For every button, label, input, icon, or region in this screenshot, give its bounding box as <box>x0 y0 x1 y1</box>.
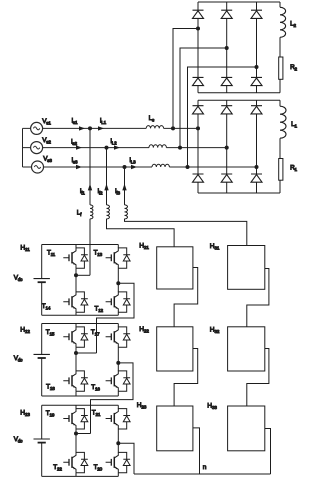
diode T16 <box>123 378 130 384</box>
arrow if3 <box>122 184 126 191</box>
wire H33 to n <box>265 429 271 475</box>
wire H12 left mid <box>76 352 97 354</box>
svg-text:T15: T15 <box>46 329 55 337</box>
node riser3 <box>186 165 190 169</box>
wire H13 left leg bottom <box>76 434 84 477</box>
wire H11 left mid <box>76 274 90 276</box>
diode lower bridge leg3 bottom <box>251 174 262 182</box>
transistor T19 <box>63 408 76 429</box>
diode T21 <box>123 416 130 422</box>
wire H11 bottom rail <box>42 314 119 316</box>
arrow iL3 <box>131 165 137 169</box>
node upper bridge leg3 mid <box>255 65 259 69</box>
svg-text:H32: H32 <box>210 327 220 336</box>
wire lower bridge right side <box>279 100 281 193</box>
wire upper bridge right side <box>279 2 281 93</box>
node H11 left mid <box>74 273 78 277</box>
inductor Ls phase b <box>149 145 166 148</box>
wire source neutral bus <box>23 128 32 167</box>
transistor T18 <box>63 371 76 392</box>
svg-text:H11: H11 <box>20 245 30 254</box>
svg-text:if2: if2 <box>98 188 103 196</box>
arrow is1 <box>79 126 85 130</box>
svg-text:Vdc: Vdc <box>14 436 23 444</box>
svg-text:H31: H31 <box>210 243 220 252</box>
transistor T11 <box>63 247 76 268</box>
source Vs1 <box>31 122 43 134</box>
battery Vdc H11 <box>34 278 50 280</box>
battery Vdc H13 <box>34 438 50 440</box>
wire phase a <box>43 127 198 129</box>
diode upper bridge leg3 bottom <box>251 77 262 85</box>
arrow if1 <box>88 184 92 191</box>
wire upper bridge bottom rail <box>198 92 280 94</box>
arrow iL1 <box>98 126 104 130</box>
node lower bridge leg1 mid <box>196 126 200 130</box>
box H33 <box>228 406 265 451</box>
wire H11 left leg bottom <box>76 275 84 315</box>
svg-text:is2: is2 <box>71 139 77 147</box>
diode T22 <box>81 459 88 465</box>
svg-text:H22: H22 <box>139 326 149 335</box>
wire H11 output to H12 <box>97 283 135 353</box>
wire H22 to H23 <box>174 349 198 407</box>
inductor Lf3 <box>125 205 128 219</box>
svg-text:Ls: Ls <box>149 115 155 123</box>
svg-text:H23: H23 <box>137 402 147 411</box>
wire H32 to H33 <box>247 349 269 407</box>
inductor Ls phase a <box>146 126 163 129</box>
svg-text:T12: T12 <box>94 305 103 313</box>
arrow is3 <box>76 165 82 169</box>
transistor T22 <box>63 452 76 473</box>
wire H13 bottom rail <box>42 475 119 477</box>
svg-text:is1: is1 <box>72 118 78 126</box>
transistor T15 <box>63 327 76 348</box>
svg-text:if1: if1 <box>80 188 85 196</box>
diode T18 <box>81 378 88 384</box>
diode T19 <box>81 416 88 422</box>
box H32 <box>228 327 265 371</box>
svg-text:is3: is3 <box>72 157 78 165</box>
wire H12 left leg bottom <box>76 353 84 396</box>
wire H23 to n <box>193 428 200 474</box>
wire riser phase a to upper bridge <box>173 29 198 129</box>
wire lower bridge bottom rail <box>198 192 280 194</box>
diode lower bridge leg2 bottom <box>221 174 232 182</box>
svg-text:iL1: iL1 <box>100 118 107 126</box>
diode lower bridge leg2 top <box>221 106 232 114</box>
svg-text:Vs2: Vs2 <box>42 137 51 145</box>
node upper bridge leg1 mid <box>196 27 200 31</box>
diode upper bridge leg1 bottom <box>193 77 204 85</box>
node riser1 <box>171 126 175 130</box>
svg-text:R2: R2 <box>290 64 297 72</box>
arrow iL2 <box>114 145 120 149</box>
wire H13 left side <box>41 405 43 476</box>
svg-text:T20: T20 <box>94 464 103 472</box>
transistor T12 <box>106 292 119 313</box>
wire tap3 down and over to H31 <box>125 167 247 246</box>
node H11 right mid <box>116 281 120 285</box>
diode lower bridge leg3 top <box>251 106 262 114</box>
inductor Lf2 <box>107 205 110 219</box>
transistor T17 <box>106 327 119 348</box>
svg-text:T11: T11 <box>47 250 56 258</box>
transistor T13 <box>106 247 119 268</box>
svg-text:L2: L2 <box>290 21 296 29</box>
arrow is2 <box>76 145 82 149</box>
wire H13 right leg bottom <box>118 443 126 476</box>
wire lower bridge leg 2 <box>226 100 228 193</box>
svg-text:H21: H21 <box>139 243 149 252</box>
diode T20 <box>123 459 130 465</box>
wire lower bridge top rail <box>198 99 280 101</box>
wire upper bridge leg 2 <box>226 2 228 93</box>
diode T17 <box>123 334 130 340</box>
svg-text:if3: if3 <box>115 188 120 196</box>
wire H12 right leg bottom <box>118 363 126 396</box>
wire H12 output to H13 <box>91 363 134 434</box>
source Vs3 <box>32 161 44 173</box>
svg-text:T21: T21 <box>92 410 101 418</box>
svg-text:H13: H13 <box>20 410 30 419</box>
svg-text:H33: H33 <box>207 403 217 412</box>
node H13 left mid <box>74 432 78 436</box>
inductor Ls phase c <box>152 164 169 167</box>
wire riser phase b to upper bridge <box>180 48 227 148</box>
diode T15 <box>81 334 88 340</box>
wire H11 right leg top <box>118 245 126 284</box>
wire H11 right leg bottom <box>118 283 126 315</box>
node lower bridge leg3 mid <box>255 165 259 169</box>
svg-text:T13: T13 <box>94 250 103 258</box>
svg-text:T19: T19 <box>46 410 55 418</box>
wire H12 top rail <box>42 323 119 325</box>
transistor T20 <box>106 452 119 473</box>
svg-text:L1: L1 <box>291 121 297 129</box>
node tap2 <box>105 146 109 150</box>
wire neutral bus n <box>134 473 271 475</box>
svg-text:T16: T16 <box>91 384 100 392</box>
svg-text:T17: T17 <box>91 329 100 337</box>
svg-text:T18: T18 <box>46 383 55 391</box>
wire H11 left leg top <box>76 245 84 276</box>
resistor R1 <box>279 159 283 181</box>
diode T14 <box>81 299 88 305</box>
diode upper bridge leg1 top <box>193 10 204 18</box>
wire upper bridge leg 1 <box>197 2 199 93</box>
diode T11 <box>81 255 88 261</box>
battery Vdc H12 <box>34 353 50 355</box>
svg-text:R1: R1 <box>290 165 297 173</box>
inductor L2 <box>280 7 286 37</box>
wire tap2 down and over to H21 <box>107 148 175 247</box>
wire H31 to H32 <box>247 269 269 327</box>
svg-text:Vs1: Vs1 <box>42 118 51 126</box>
wire H12 left leg top <box>76 324 84 354</box>
wire H11 left side <box>41 245 43 316</box>
wire lower bridge leg 1 <box>197 100 199 193</box>
wire H11 top rail <box>42 244 119 246</box>
transistor T14 <box>63 292 76 313</box>
wire upper bridge leg 3 <box>256 2 258 93</box>
wire upper bridge top rail <box>198 1 280 3</box>
node tap3 <box>123 165 127 169</box>
svg-text:Vdc: Vdc <box>14 355 23 363</box>
wire lower bridge leg 3 <box>256 100 258 193</box>
wire H21 to H22 <box>174 268 198 327</box>
inductor Lf1 <box>90 205 93 219</box>
transistor T21 <box>106 408 119 429</box>
diode upper bridge leg2 top <box>221 10 232 18</box>
wire phase b <box>43 147 227 149</box>
node H12 left mid <box>74 351 78 355</box>
node riser2 <box>178 146 182 150</box>
diode T13 <box>123 255 130 261</box>
node H12 right mid <box>116 361 120 365</box>
diode lower bridge leg1 bottom <box>193 174 204 182</box>
diode T12 <box>123 299 130 305</box>
svg-text:H12: H12 <box>20 327 30 336</box>
wire H12 bottom rail <box>42 395 119 397</box>
wire H12 right leg top <box>118 324 126 363</box>
wire H12 left side <box>41 324 43 397</box>
node upper bridge leg2 mid <box>225 46 229 50</box>
wire phase c <box>44 166 257 168</box>
diode upper bridge leg2 bottom <box>221 77 232 85</box>
node lower bridge leg2 mid <box>225 146 229 150</box>
box H22 <box>157 327 193 371</box>
diode lower bridge leg1 top <box>193 106 204 114</box>
wire H13 right leg top <box>118 405 126 443</box>
source Vs2 <box>31 142 43 154</box>
svg-text:iL3: iL3 <box>130 157 137 165</box>
node H13 right mid <box>116 441 120 445</box>
svg-text:T22: T22 <box>53 464 62 472</box>
box H21 <box>157 247 193 289</box>
wire H13 top rail <box>42 404 119 406</box>
box H31 <box>228 246 265 290</box>
node tap1 <box>88 126 92 130</box>
svg-text:iL2: iL2 <box>111 138 118 146</box>
transistor T16 <box>106 371 119 392</box>
wire tap1 down to H11 <box>89 128 91 275</box>
arrow if2 <box>104 184 108 191</box>
svg-text:Vdc: Vdc <box>14 275 23 283</box>
wire H13 left mid <box>76 433 91 435</box>
wire H13 left leg top <box>76 405 84 433</box>
inductor L1 <box>280 106 286 138</box>
svg-text:T14: T14 <box>42 303 51 311</box>
svg-text:Lf: Lf <box>77 210 82 218</box>
resistor R2 <box>279 57 283 79</box>
diode upper bridge leg3 top <box>251 10 262 18</box>
svg-text:n: n <box>203 464 207 471</box>
box H23 <box>157 406 193 451</box>
wire H13 output to n <box>118 443 134 474</box>
svg-text:Vs3: Vs3 <box>43 156 52 164</box>
wire riser phase c to upper bridge <box>188 67 257 167</box>
